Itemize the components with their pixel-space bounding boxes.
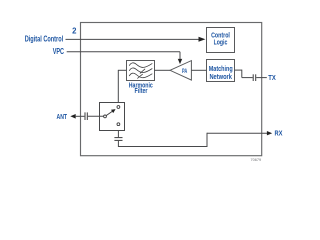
svg-text:2: 2	[72, 27, 77, 36]
svg-text:TX: TX	[268, 75, 276, 82]
svg-text:Logic: Logic	[214, 38, 228, 47]
svg-text:70679: 70679	[251, 158, 262, 162]
svg-text:Network: Network	[209, 72, 232, 81]
svg-text:PA: PA	[182, 68, 187, 75]
svg-text:ANT: ANT	[57, 114, 68, 121]
svg-text:Digital Control: Digital Control	[25, 34, 64, 43]
svg-text:VPC: VPC	[53, 47, 65, 56]
svg-text:RX: RX	[275, 130, 283, 137]
svg-text:Filter: Filter	[135, 88, 148, 95]
